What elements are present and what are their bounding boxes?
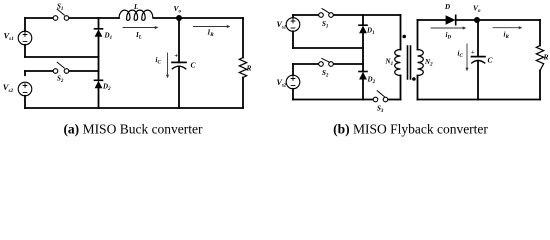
wire top rail S1 to corner [333, 14, 400, 16]
svg-text:(b) MISO Flyback converter: (b) MISO Flyback converter [333, 122, 488, 137]
wire output capacitor branch bottom [477, 61, 479, 100]
wire output capacitor branch top [477, 20, 479, 57]
transformer primary winding N1 [395, 50, 401, 76]
wire output R branch top [539, 20, 541, 46]
wire output bottom rail [418, 99, 541, 101]
current arrow iR (b) [493, 26, 522, 29]
wire bottom rail [25, 107, 243, 109]
wire top rail left segment (Vs1 top to S1) [25, 17, 53, 19]
diode D1 [95, 29, 103, 37]
diode D2 [95, 80, 103, 88]
switch S1 (b) [319, 9, 334, 18]
diode D1 (b) [359, 25, 367, 33]
wire diode bus (b) bottom [362, 80, 364, 100]
transformer core lines [408, 46, 411, 79]
wire capacitor branch bottom [178, 66, 180, 108]
wire primary top vertical [400, 15, 402, 50]
current arrow iC (a) [166, 53, 169, 78]
wire output R branch bottom [539, 71, 541, 100]
current arrow IL [123, 26, 158, 29]
svg-text:(a) MISO Buck converter: (a) MISO Buck converter [63, 122, 203, 137]
transformer polarity dot secondary [412, 77, 416, 81]
wire Vs1 bottom to bus [293, 47, 363, 49]
wire Vs1 bottom to diode bus [25, 56, 99, 58]
wire resistor branch top [242, 18, 244, 58]
svg-text:+: + [471, 49, 475, 56]
current arrow iC (b) [465, 44, 468, 71]
switch S2 (b) [319, 58, 334, 66]
wire Vs1 left column top [24, 18, 26, 31]
wire resistor branch bottom [242, 78, 244, 109]
wire Vs2 column bottom [292, 89, 294, 100]
capacitor C (a) plates [172, 62, 186, 68]
resistor R (a) [239, 58, 246, 78]
svg-text:R: R [246, 64, 252, 73]
wire diode bus (b) middle [362, 33, 364, 71]
wire diode bus middle [98, 37, 100, 81]
wire capacitor branch top [178, 18, 180, 62]
wire S2 row left [25, 70, 53, 72]
switch S1 [53, 9, 69, 20]
transformer secondary winding N2 [418, 50, 424, 76]
svg-text:D: D [444, 3, 450, 11]
svg-text:+: + [174, 52, 178, 59]
wire diode bus (b) top [362, 15, 364, 25]
voltage source Vs1 [18, 31, 32, 45]
svg-text:L: L [133, 3, 138, 11]
wire Vs1 stub top [292, 15, 294, 18]
resistor R (b) [536, 46, 543, 71]
wire top rail S1 to inductor [69, 17, 119, 19]
wire S2 row left [293, 63, 318, 65]
diode D (b output) [446, 15, 456, 24]
svg-text:R: R [543, 53, 549, 62]
wire diode bus D1 top [98, 18, 100, 29]
voltage source Vs2 (b) [286, 75, 300, 89]
voltage source Vs1 (b) [286, 18, 300, 32]
wire Vs1 column bottom [292, 31, 294, 48]
wire output top rail to diode D [418, 19, 446, 21]
wire secondary bottom vertical [417, 76, 419, 100]
wire Vs2 column top [24, 71, 26, 75]
wire Vs1 left column bottom [24, 45, 26, 57]
wire Vs2 column top [292, 64, 294, 75]
capacitor C (b) plates [472, 57, 486, 63]
wire S3 to primary corner [388, 99, 401, 101]
current arrow IR [194, 25, 231, 28]
wire top rail left (Vs1 to S1) [293, 14, 319, 16]
wire primary bottom vertical [400, 76, 402, 100]
switch S2 [53, 62, 69, 73]
node Vo (b) [474, 17, 480, 23]
node Vo (a) [176, 15, 182, 21]
diode D2 (b) [359, 72, 367, 80]
switch S3 (b) [373, 91, 388, 102]
wire top rail inductor to right edge [154, 17, 243, 19]
wire Vs2 column bottom [24, 96, 26, 108]
voltage source Vs2 [18, 82, 32, 96]
wire output top rail diode to R [456, 19, 540, 21]
wire diode bus bottom [98, 88, 100, 108]
wire secondary top vertical [417, 20, 419, 50]
wire S2 row right [334, 63, 363, 65]
wire bottom row to S3 [293, 99, 373, 101]
wire S2 row right [69, 70, 99, 72]
current arrow iD [431, 26, 466, 29]
transformer polarity dot primary [402, 35, 406, 39]
inductor L [119, 10, 153, 20]
